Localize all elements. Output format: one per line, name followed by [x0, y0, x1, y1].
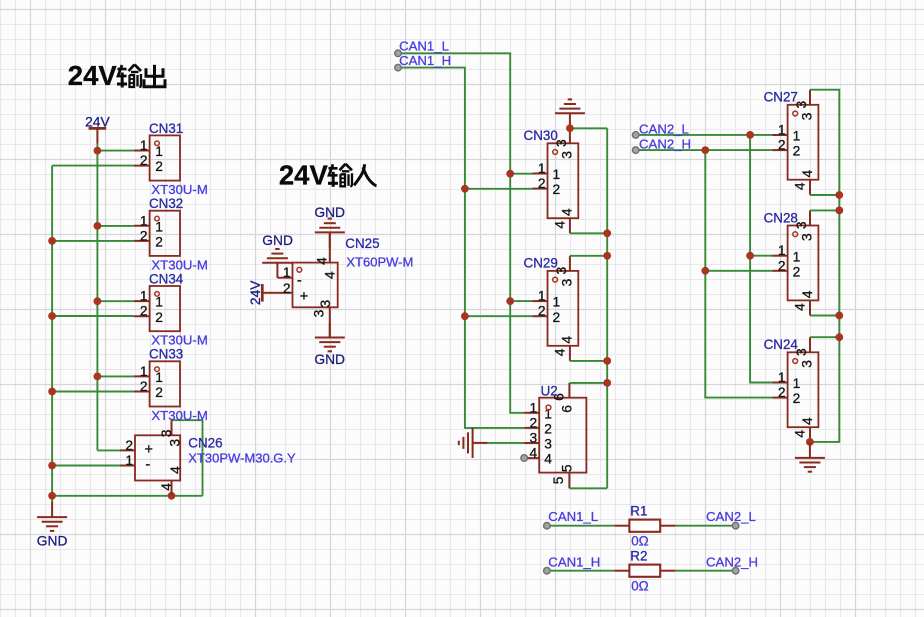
- svg-text:4: 4: [553, 348, 568, 356]
- junction 24V/CN34.1: [94, 297, 102, 305]
- end CAN2_H: [732, 567, 739, 574]
- wire CN24.3: [810, 336, 839, 338]
- wire to CN26 pin1: [52, 465, 120, 467]
- junction CN30.3/gnd: [566, 124, 574, 132]
- svg-text:CN33: CN33: [149, 347, 183, 362]
- junction GND/CN33.2: [48, 388, 56, 396]
- unconnected U2 pin4: [521, 455, 528, 462]
- junction GND/CN26.1: [48, 462, 56, 470]
- wire to CN33 pin2: [52, 391, 134, 393]
- ground (CN24): [795, 443, 825, 472]
- ground (CN30 top): [555, 99, 585, 128]
- junction CAN2_L: [746, 131, 754, 139]
- svg-text:GND: GND: [314, 352, 345, 367]
- junction CN26.4: [168, 492, 176, 500]
- wire CAN1_L to CN29.1: [510, 300, 532, 302]
- svg-text:4: 4: [800, 170, 815, 178]
- wire CAN1_L to R1: [547, 525, 614, 527]
- svg-text:3: 3: [559, 278, 574, 286]
- svg-text:R2: R2: [630, 549, 647, 564]
- svg-text:1: 1: [553, 295, 561, 310]
- ground (CN25 pin1): [262, 249, 292, 278]
- svg-text:2: 2: [140, 228, 148, 243]
- wire CN29.3: [570, 255, 607, 257]
- junction GND row: [48, 492, 56, 500]
- svg-text:CN26: CN26: [188, 436, 222, 451]
- svg-text:2: 2: [140, 379, 148, 394]
- svg-text:2: 2: [553, 182, 561, 197]
- IC U2: [524, 383, 586, 488]
- wire GND bus mid vertical: [606, 128, 608, 488]
- svg-text:2: 2: [140, 304, 148, 319]
- svg-text:2: 2: [155, 159, 163, 174]
- wire CAN1_H to R2: [547, 570, 614, 572]
- svg-text:CAN2_H: CAN2_H: [706, 554, 758, 569]
- svg-text:CAN2_L: CAN2_L: [706, 509, 756, 524]
- connector CN27: [764, 90, 819, 195]
- junction CAN2_L/CN28.1: [746, 252, 754, 260]
- connector CN33 (XT30U-M): [134, 347, 208, 423]
- ground (CN25 pin3): [315, 322, 345, 351]
- end CAN2_L: [632, 132, 639, 139]
- svg-text:XT30PW-M30.G.Y: XT30PW-M30.G.Y: [188, 451, 296, 466]
- svg-text:1: 1: [155, 370, 163, 385]
- wire CAN2_H to CN28.2: [705, 270, 772, 272]
- wire to CN31 pin1: [97, 150, 133, 152]
- svg-text:CN25: CN25: [345, 236, 379, 251]
- svg-text:1: 1: [140, 289, 148, 304]
- svg-text:1: 1: [155, 219, 163, 234]
- svg-text:1: 1: [125, 453, 133, 468]
- svg-text:2: 2: [538, 176, 546, 191]
- svg-text:4: 4: [560, 208, 575, 216]
- svg-text:24V: 24V: [279, 159, 329, 190]
- svg-text:4: 4: [168, 466, 183, 474]
- wire to CN32 pin1: [97, 225, 133, 227]
- svg-text:3: 3: [544, 437, 552, 452]
- svg-text:CN34: CN34: [149, 271, 184, 286]
- svg-text:2: 2: [544, 422, 552, 437]
- connector CN25 (XT60PW-M): [277, 232, 413, 337]
- junction GND/CN34.2: [48, 312, 56, 320]
- svg-text:2: 2: [283, 281, 291, 296]
- title 24V input: [279, 159, 377, 190]
- svg-text:4: 4: [544, 452, 552, 467]
- svg-text:4: 4: [793, 182, 808, 190]
- end CAN1_L: [395, 50, 402, 57]
- svg-text:1: 1: [793, 249, 801, 264]
- wire CN30.4: [570, 232, 607, 234]
- junction 24V/CN31.1: [94, 147, 102, 155]
- svg-text:1: 1: [538, 289, 546, 304]
- wire GND bus vertical: [51, 166, 53, 496]
- svg-text:6: 6: [559, 405, 574, 413]
- svg-text:GND: GND: [262, 233, 293, 248]
- svg-text:4: 4: [793, 430, 808, 438]
- junction 24V/CN33.1: [94, 373, 102, 381]
- connector CN29: [524, 256, 579, 361]
- wire CN29.4: [570, 360, 607, 362]
- wire CN30.3 to GND bus: [570, 127, 607, 129]
- wire CN26 right vertical: [202, 420, 204, 496]
- power flag 24V: [85, 114, 110, 143]
- wire 24V bus vertical: [96, 144, 98, 451]
- svg-text:R1: R1: [630, 504, 647, 519]
- svg-text:XT30U-M: XT30U-M: [151, 408, 207, 423]
- junction CN29.3: [603, 252, 611, 260]
- junction CN28.3: [835, 207, 843, 215]
- wire CAN1_L: [398, 53, 524, 413]
- wire to CN34 pin2: [52, 315, 134, 317]
- svg-text:4: 4: [322, 271, 337, 279]
- wire CAN1_L to CN30.1: [510, 173, 532, 175]
- svg-text:+: +: [145, 442, 153, 458]
- junction CN28.4: [835, 312, 843, 320]
- svg-text:U2: U2: [541, 383, 558, 398]
- svg-text:4: 4: [800, 417, 815, 425]
- svg-text:1: 1: [778, 123, 786, 138]
- connector CN24: [764, 337, 819, 442]
- ground (CN25 pin4): [315, 219, 345, 248]
- title 24V output: [68, 60, 165, 91]
- svg-text:GND: GND: [37, 534, 68, 549]
- resistor R1: [614, 504, 675, 549]
- svg-text:CAN1_L: CAN1_L: [399, 39, 449, 54]
- svg-text:XT60PW-M: XT60PW-M: [346, 255, 413, 270]
- wire U2.6: [569, 382, 607, 384]
- svg-text:2: 2: [793, 391, 801, 406]
- svg-text:-: -: [297, 273, 302, 289]
- svg-text:4: 4: [530, 446, 538, 461]
- svg-text:CN27: CN27: [764, 90, 798, 105]
- svg-text:3: 3: [799, 233, 814, 241]
- svg-text:24V: 24V: [85, 114, 110, 129]
- wire CN27.4: [810, 194, 839, 196]
- svg-text:2: 2: [793, 264, 801, 279]
- svg-text:CN32: CN32: [149, 196, 183, 211]
- svg-text:1: 1: [283, 265, 291, 280]
- svg-text:5: 5: [551, 476, 566, 484]
- svg-text:1: 1: [553, 167, 561, 182]
- end CAN2_L: [732, 522, 739, 529]
- svg-text:CN30: CN30: [524, 128, 558, 143]
- junction CAN2_H/CN28.2: [701, 267, 709, 275]
- svg-text:3: 3: [530, 431, 538, 446]
- svg-text:CN31: CN31: [149, 121, 183, 136]
- svg-text:2: 2: [793, 144, 801, 159]
- ground: [37, 502, 67, 531]
- connector CN32 (XT30U-M): [134, 196, 208, 272]
- svg-text:3: 3: [168, 439, 183, 447]
- wire R2 to CAN2_H: [675, 570, 735, 572]
- junction 24V/CN32.1: [94, 222, 102, 230]
- junction CN30.4: [603, 229, 611, 237]
- wire CN31 pin2 to GND bus: [52, 165, 134, 167]
- svg-text:XT30U-M: XT30U-M: [151, 333, 207, 348]
- svg-text:3: 3: [799, 112, 814, 120]
- wire to CN26 pin2: [97, 449, 120, 451]
- wire CAN2_H vertical: [705, 150, 772, 398]
- svg-text:24V: 24V: [68, 60, 118, 91]
- end CAN1_H: [544, 567, 551, 574]
- wire R1 to CAN2_L: [675, 525, 735, 527]
- wire CAN1_H to CN30.2: [465, 188, 533, 190]
- svg-text:3: 3: [159, 429, 174, 437]
- svg-text:4: 4: [800, 290, 815, 298]
- wire CAN2_L to CN28.1: [750, 255, 772, 257]
- svg-text:4: 4: [553, 221, 568, 229]
- svg-text:2: 2: [553, 310, 561, 325]
- junction CAN1_H/CN29.2: [461, 312, 469, 320]
- wire to CN33 pin1: [97, 375, 133, 377]
- wire to CN32 pin2: [52, 240, 134, 242]
- svg-text:2: 2: [125, 438, 133, 453]
- svg-text:2: 2: [155, 235, 163, 250]
- wire CAN2_H: [636, 149, 773, 151]
- svg-text:+: +: [300, 289, 308, 305]
- svg-text:2: 2: [778, 258, 786, 273]
- svg-text:1: 1: [140, 138, 148, 153]
- wire right GND bus: [810, 90, 839, 442]
- svg-text:4: 4: [159, 483, 174, 491]
- svg-text:2: 2: [155, 310, 163, 325]
- wire CN28.3: [810, 209, 839, 211]
- svg-text:1: 1: [793, 376, 801, 391]
- svg-text:CAN1_L: CAN1_L: [548, 509, 598, 524]
- junction CN27.4: [835, 191, 843, 199]
- svg-text:GND: GND: [314, 205, 345, 220]
- svg-text:4: 4: [560, 336, 575, 344]
- svg-text:1: 1: [793, 129, 801, 144]
- resistor R2: [614, 549, 675, 594]
- connector CN34 (XT30U-M): [134, 271, 208, 347]
- svg-text:3: 3: [559, 151, 574, 159]
- connector CN28: [764, 210, 819, 315]
- connector CN26 (XT30PW-M30.G.Y): [120, 420, 296, 495]
- svg-text:3: 3: [318, 299, 333, 307]
- junction CAN2_H: [701, 146, 709, 154]
- svg-text:4: 4: [793, 303, 808, 311]
- svg-text:0Ω: 0Ω: [631, 534, 648, 549]
- svg-text:CAN2_L: CAN2_L: [639, 121, 689, 136]
- svg-text:1: 1: [140, 213, 148, 228]
- wire to ground: [51, 496, 53, 503]
- wire U2.3 to ground: [488, 442, 524, 444]
- svg-text:4: 4: [314, 257, 329, 265]
- ground (U2 pin3): [459, 428, 488, 458]
- svg-text:2: 2: [140, 153, 148, 168]
- svg-text:24V: 24V: [248, 280, 263, 305]
- svg-text:3: 3: [311, 309, 326, 317]
- svg-text:CN28: CN28: [764, 210, 798, 225]
- junction CN24.4: [806, 438, 814, 446]
- wire U2.5: [569, 487, 607, 489]
- svg-text:2: 2: [530, 415, 538, 430]
- end CAN1_H: [395, 64, 402, 71]
- svg-text:1: 1: [778, 370, 786, 385]
- svg-text:2: 2: [778, 138, 786, 153]
- svg-text:1: 1: [155, 295, 163, 310]
- end CAN2_H: [632, 147, 639, 154]
- power flag 24V: [248, 280, 278, 305]
- svg-text:3: 3: [799, 360, 814, 368]
- wire to CN34 pin1: [97, 300, 133, 302]
- junction CAN1_H/CN30.2: [461, 185, 469, 193]
- svg-text:CAN1_H: CAN1_H: [548, 554, 600, 569]
- svg-text:1: 1: [778, 243, 786, 258]
- connector CN31 (XT30U-M): [134, 121, 208, 197]
- wire CN26 pin3: [172, 419, 203, 421]
- end CAN1_L: [544, 522, 551, 529]
- svg-text:XT30U-M: XT30U-M: [151, 182, 207, 197]
- junction CAN1_L/CN29.1: [506, 297, 514, 305]
- svg-text:2: 2: [538, 304, 546, 319]
- junction GND/CN32.2: [48, 237, 56, 245]
- connector CN30: [524, 128, 579, 233]
- junction CN24.3: [835, 333, 843, 341]
- svg-text:CAN1_H: CAN1_H: [399, 53, 451, 68]
- wire GND row horizontal: [52, 495, 202, 497]
- junction CN29.4: [603, 357, 611, 365]
- svg-text:1: 1: [538, 161, 546, 176]
- wire CAN1_H: [398, 68, 524, 428]
- junction CAN1_L/CN30.1: [506, 170, 514, 178]
- wire CAN1_H to CN29.2: [465, 315, 533, 317]
- svg-text:1: 1: [140, 364, 148, 379]
- wire CAN2_L: [636, 134, 773, 136]
- svg-text:XT30U-M: XT30U-M: [151, 257, 207, 272]
- junction U2.6: [603, 379, 611, 387]
- wire CAN2_L vertical: [750, 135, 772, 383]
- svg-text:2: 2: [778, 385, 786, 400]
- svg-text:0Ω: 0Ω: [631, 579, 648, 594]
- svg-text:2: 2: [155, 385, 163, 400]
- svg-text:5: 5: [559, 464, 574, 472]
- svg-text:-: -: [145, 457, 150, 473]
- svg-text:CN29: CN29: [524, 256, 558, 271]
- svg-text:1: 1: [530, 400, 538, 415]
- svg-text:1: 1: [155, 144, 163, 159]
- wire CN28.4: [810, 315, 839, 317]
- svg-text:CN24: CN24: [764, 337, 799, 352]
- svg-text:CAN2_H: CAN2_H: [639, 137, 691, 152]
